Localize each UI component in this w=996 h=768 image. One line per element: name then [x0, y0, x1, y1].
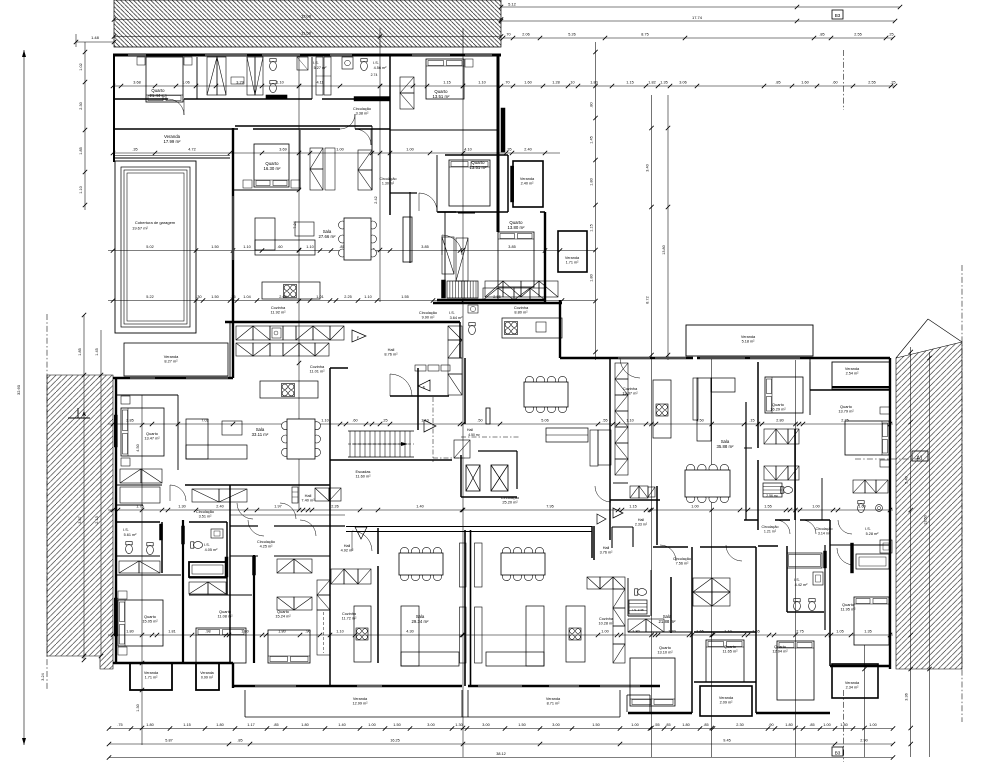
svg-text:5.06: 5.06 [541, 419, 548, 423]
corridor wall y451 [478, 450, 517, 452]
svg-text:4.10: 4.10 [464, 148, 471, 152]
svg-text:19.67 m²: 19.67 m² [132, 226, 148, 231]
svg-text:.85: .85 [665, 723, 670, 727]
sw bottom wall [113, 662, 233, 664]
svg-text:1.10: 1.10 [79, 186, 83, 193]
svg-text:8.27 m²: 8.27 m² [164, 359, 178, 364]
bottom dimension row 3 [109, 757, 893, 759]
north top wall window glazing [128, 54, 146, 56]
svg-text:13.80: 13.80 [662, 245, 666, 255]
svg-text:1.40: 1.40 [338, 723, 345, 727]
closet center pair [693, 578, 712, 592]
right wing east wall [544, 212, 546, 302]
door arc ne1 [620, 358, 640, 378]
svg-text:1.30: 1.30 [178, 505, 185, 509]
svg-text:11.60 m²: 11.60 m² [355, 474, 371, 479]
bottom dimension row 2 [109, 743, 893, 745]
sw partition x183 thick [182, 520, 184, 663]
svg-text:8.80 m²: 8.80 m² [514, 310, 528, 315]
closet sw q1108 [189, 582, 208, 594]
west window bar 2 [114, 598, 117, 636]
door jamb x851 [851, 543, 854, 573]
bed Quarto 16.30 [254, 144, 289, 187]
closet sw hall [120, 469, 141, 483]
southwest outer west wall [115, 378, 117, 663]
left dimension line x85 upper [84, 42, 86, 210]
svg-text:3.00: 3.00 [482, 723, 489, 727]
svg-text:1.80: 1.80 [590, 81, 597, 85]
sofa sala3588 [697, 378, 711, 441]
tall cabinet column mid x318 [317, 580, 330, 595]
dimension chain y301 [108, 300, 595, 302]
toilet IS3.64 [469, 325, 476, 334]
svg-text:5.12: 5.12 [508, 2, 517, 7]
svg-text:1.10: 1.10 [336, 630, 343, 634]
window bar right wing upper [501, 108, 505, 152]
svg-text:.75: .75 [117, 723, 122, 727]
svg-text:B3: B3 [835, 13, 841, 18]
section marker A1 right [855, 458, 918, 460]
svg-text:.70: .70 [504, 81, 509, 85]
elevator cab 2 [491, 465, 508, 491]
svg-text:Circulação: Circulação [353, 107, 371, 111]
closet hall740 [315, 488, 329, 501]
dimension chain y153 [113, 152, 560, 154]
svg-text:.85: .85 [775, 81, 780, 85]
svg-text:Circulação: Circulação [257, 540, 275, 544]
left dimension line x101 over hatch [100, 330, 102, 656]
nightstand quarto1379 [880, 407, 890, 414]
shower stall I.S.5.27 [297, 57, 308, 70]
closet center pair2 [628, 619, 646, 632]
svg-text:1.00: 1.00 [823, 723, 830, 727]
svg-text:Veranda: Veranda [845, 681, 860, 685]
nightstands q1505 [118, 591, 127, 599]
svg-text:2.06: 2.06 [522, 33, 529, 37]
sw corridor wall y485 [116, 484, 162, 486]
closet by elevator [454, 440, 470, 458]
big veranda outline [244, 690, 246, 717]
sala3696 west wall [464, 358, 466, 424]
svg-text:12.94 m²: 12.94 m² [772, 649, 788, 654]
svg-text:Cozinha: Cozinha [342, 612, 357, 616]
closet row above kitchen880 [485, 281, 503, 297]
marker small triangle left [597, 514, 606, 524]
svg-text:Circulação: Circulação [196, 510, 214, 514]
window west wall [232, 196, 234, 260]
svg-text:1.00: 1.00 [869, 723, 876, 727]
closet sw hall2 [192, 489, 219, 502]
svg-text:7.56 m²: 7.56 m² [676, 562, 690, 566]
svg-text:1.80: 1.80 [632, 630, 639, 634]
svg-text:5.02: 5.02 [146, 245, 153, 249]
stove cozinha1337 [656, 404, 668, 416]
svg-text:I.S.: I.S. [373, 61, 379, 65]
svg-text:1.10: 1.10 [364, 295, 371, 299]
east apt west wall x760 [757, 362, 759, 448]
svg-text:Circulação: Circulação [380, 177, 397, 181]
svg-text:2.40: 2.40 [216, 505, 223, 509]
svg-text:1.15: 1.15 [629, 505, 636, 509]
svg-text:15.24 m²: 15.24 m² [275, 614, 291, 619]
svg-text:I.S.: I.S. [794, 578, 800, 582]
svg-text:0.99 m²: 0.99 m² [201, 675, 214, 679]
door arc center2 [726, 545, 742, 561]
boundary wedge above right band [928, 319, 962, 342]
stairs center rail [348, 443, 414, 445]
B3 marker top [832, 10, 843, 19]
IS405 walls [189, 577, 227, 579]
bed Quarto 13.51 upper [426, 59, 464, 99]
tall cabinets cozinha1028 [613, 589, 625, 608]
sw wall y522 [116, 521, 160, 523]
svg-text:4.72: 4.72 [188, 148, 195, 152]
svg-text:5.18 m²: 5.18 m² [742, 340, 756, 344]
svg-text:1.10: 1.10 [276, 81, 283, 85]
wall x254 thick [253, 555, 255, 663]
shower columns I.S.4.56 [316, 57, 323, 95]
dimension chain y424 [108, 423, 893, 425]
svg-text:11.08 m²: 11.08 m² [217, 614, 233, 619]
svg-text:Hall: Hall [344, 544, 351, 548]
elevator cab 1 [466, 465, 480, 491]
mid-south bottom wall [233, 685, 462, 687]
stairwell walls [329, 368, 331, 460]
wardrobe Quarto13.51 upper [400, 77, 414, 93]
svg-text:4.30: 4.30 [406, 630, 413, 634]
svg-text:1.15: 1.15 [626, 81, 633, 85]
wall x372 [371, 126, 373, 190]
svg-text:1.71 m²: 1.71 m² [566, 261, 580, 265]
bed Quarto 21.44 [146, 57, 183, 102]
stove Cozinha11.92 [284, 285, 297, 298]
svg-text:4.25 m²: 4.25 m² [260, 545, 274, 549]
kitchen880 right wall [559, 300, 561, 358]
grid axis x299 [298, 55, 300, 510]
svg-text:.15: .15 [749, 419, 754, 423]
svg-text:.30: .30 [196, 295, 201, 299]
garage canopy outer [115, 161, 196, 333]
svg-text:.55: .55 [602, 419, 607, 423]
door jamb x824 [824, 551, 827, 568]
bed Quarto13.80 [498, 232, 534, 287]
wall y212-280 right wing [444, 212, 446, 287]
svg-text:1.80: 1.80 [301, 723, 308, 727]
east apt bottom wall [830, 665, 890, 667]
door arc center1 [660, 545, 676, 561]
svg-text:Veranda: Veranda [565, 256, 580, 260]
left dimension line x84 over hatch [83, 315, 85, 660]
IS 4.42 walls [758, 545, 778, 547]
window segs mid bottom [255, 685, 296, 687]
svg-text:3.85: 3.85 [508, 245, 515, 249]
svg-text:.85: .85 [273, 723, 278, 727]
north apartment separating wall y303 [433, 302, 562, 304]
svg-text:E: E [423, 385, 426, 390]
wall x390 mid [389, 130, 391, 215]
bidet sw is [147, 545, 154, 554]
svg-text:21.88 m²: 21.88 m² [659, 619, 677, 624]
svg-text:38.12: 38.12 [496, 752, 506, 756]
svg-text:1.60: 1.60 [801, 81, 808, 85]
closet row hall492 [331, 569, 344, 584]
veranda 2.40 box [513, 161, 543, 207]
svg-text:5.28 m²: 5.28 m² [866, 532, 880, 536]
east closet row 2 [764, 466, 776, 480]
door arc corridor c1 [248, 520, 264, 536]
window segs southeast top [618, 357, 650, 359]
grid axis x595 [595, 42, 597, 360]
bed quarto1195 [854, 597, 889, 645]
wall x810 [809, 358, 811, 390]
svg-text:1.40: 1.40 [416, 505, 423, 509]
svg-text:1.35: 1.35 [864, 630, 871, 634]
kitchen counter sala2188 east [566, 606, 585, 662]
southwest top wall y378 [113, 377, 233, 379]
wall x594 center hall [593, 526, 595, 560]
closet pair mid-north-2 [358, 150, 372, 170]
svg-text:13.79 m²: 13.79 m² [838, 409, 854, 414]
svg-text:.25: .25 [888, 33, 893, 37]
wardrobe closets north-2 [247, 57, 255, 95]
svg-text:1.55: 1.55 [401, 295, 408, 299]
svg-text:2.33 m²: 2.33 m² [635, 522, 648, 526]
door arc corridor north [419, 193, 437, 211]
svg-text:1.50: 1.50 [592, 723, 599, 727]
svg-text:1.55: 1.55 [764, 505, 771, 509]
marker F2 triangle [613, 508, 623, 518]
svg-text:1.30 m²: 1.30 m² [382, 181, 395, 185]
svg-text:1.80: 1.80 [146, 723, 153, 727]
svg-text:3.00: 3.00 [427, 723, 434, 727]
svg-text:1.80: 1.80 [241, 630, 248, 634]
svg-text:1.70: 1.70 [668, 630, 675, 634]
svg-text:9.45: 9.45 [723, 739, 730, 743]
left boundary dash-dot line [46, 314, 48, 691]
stairs arrow [352, 443, 404, 445]
svg-text:35.88 m²: 35.88 m² [717, 444, 735, 449]
svg-text:2.80: 2.80 [776, 419, 783, 423]
wall stub x488 [486, 408, 490, 424]
hall876 window row [415, 365, 426, 371]
svg-text:12.99 m²: 12.99 m² [353, 702, 369, 706]
svg-text:1.00: 1.00 [631, 723, 638, 727]
svg-text:2.75: 2.75 [796, 630, 803, 634]
svg-text:.60: .60 [277, 245, 282, 249]
toilet I.S.5.27 [270, 61, 277, 70]
svg-text:.85: .85 [809, 723, 814, 727]
closet pair right wing [442, 237, 454, 274]
marker E triangle [418, 380, 430, 391]
counter cozinha1337 right wall [693, 378, 698, 420]
section marker A left [68, 417, 90, 419]
nightstand pair Quarto 21.44 [137, 57, 145, 65]
svg-text:1.48: 1.48 [91, 35, 100, 40]
svg-text:1.17: 1.17 [247, 723, 254, 727]
svg-text:3.64 m²: 3.64 m² [450, 316, 464, 320]
svg-text:1.81: 1.81 [168, 630, 175, 634]
wall x175 sw [177, 395, 179, 470]
island cozinha1337 [653, 380, 671, 438]
svg-text:1.45: 1.45 [590, 136, 594, 143]
svg-text:1.15: 1.15 [590, 224, 594, 231]
bathtub east [787, 553, 822, 568]
wall y390 east [810, 389, 890, 391]
shower box IS442 [813, 572, 823, 585]
wall x657 south of hall [656, 486, 658, 545]
wall x822 east [821, 478, 823, 520]
north wing right wall [497, 55, 500, 232]
svg-text:1.10: 1.10 [478, 81, 485, 85]
right boundary dash-dot [961, 265, 963, 722]
svg-text:33.11 m²: 33.11 m² [252, 432, 269, 437]
bench sw hall [120, 487, 160, 503]
corridor wall y193 [390, 192, 417, 194]
svg-text:1.10: 1.10 [321, 419, 328, 423]
bed quarto1629 [765, 377, 803, 413]
svg-text:1.02: 1.02 [79, 63, 83, 70]
svg-text:Veranda: Veranda [741, 335, 756, 339]
svg-text:Veranda: Veranda [144, 671, 159, 675]
svg-text:.85: .85 [237, 739, 242, 743]
shower east 2.56 [763, 483, 782, 497]
wall x610 southeast [609, 358, 611, 540]
wall x378 mid apartment [377, 528, 379, 554]
center apt bottom walls [628, 712, 692, 714]
nightstand q1351 upper [465, 59, 473, 67]
svg-text:2.55: 2.55 [854, 33, 861, 37]
veranda 17.99 outline [114, 157, 230, 159]
coffee table sala3311 [222, 421, 242, 435]
dimension line top-right tier3 [503, 37, 893, 39]
grid axis x463 [462, 28, 464, 757]
sw wall y595 [189, 594, 252, 596]
svg-text:1.00: 1.00 [336, 148, 343, 152]
svg-text:3.85: 3.85 [421, 245, 428, 249]
svg-text:1.80: 1.80 [216, 723, 223, 727]
dimension line 5.12 top-right [501, 6, 900, 8]
closet row right wing bottom [483, 288, 498, 300]
svg-text:1.80: 1.80 [682, 723, 689, 727]
svg-text:2.09 m²: 2.09 m² [720, 701, 734, 705]
grid axis x795 [795, 360, 797, 757]
door arc hall492 [352, 531, 372, 551]
svg-text:1.80: 1.80 [126, 630, 133, 634]
svg-text:I.S.: I.S. [449, 311, 455, 315]
svg-text:13.51 m²: 13.51 m² [470, 165, 488, 170]
sofa sala2188 [526, 606, 544, 666]
dimension line 11.58 inside top band [114, 36, 501, 38]
svg-text:5.26: 5.26 [568, 33, 575, 37]
svg-text:2.60: 2.60 [279, 295, 286, 299]
grid axis x380 [379, 28, 381, 302]
svg-text:8.76 m²: 8.76 m² [384, 352, 398, 357]
center corridor south wall [653, 546, 688, 548]
stove cozinha1101 [282, 384, 295, 397]
dining table sala2934 [400, 547, 408, 555]
svg-text:2.30: 2.30 [79, 102, 83, 109]
toilet I.S.4.56 [361, 61, 368, 70]
bed quarto1505 [118, 600, 163, 646]
svg-text:Circulação: Circulação [762, 525, 779, 529]
svg-text:Hall: Hall [638, 518, 644, 522]
svg-text:.50: .50 [477, 419, 482, 423]
east apt wall x800 [809, 362, 811, 415]
bed quarto1294 [777, 641, 814, 700]
svg-text:12.08: 12.08 [301, 14, 312, 19]
veranda 2.34 box [832, 664, 878, 698]
IS561 walls [116, 555, 160, 557]
svg-text:32.60: 32.60 [16, 384, 21, 395]
sw east wall x230 [229, 322, 231, 378]
east corridor walls [744, 519, 758, 521]
door arc east corridor1 [776, 520, 790, 534]
svg-text:11.01 m²: 11.01 m² [309, 369, 325, 374]
svg-text:2.56 m²: 2.56 m² [766, 494, 778, 498]
island cozinha1101 [260, 381, 318, 398]
corridor wall x410 [409, 192, 411, 263]
svg-text:1.10: 1.10 [306, 245, 313, 249]
door jamb x226 [225, 557, 228, 577]
svg-text:1.21 m²: 1.21 m² [764, 529, 777, 533]
svg-text:1.50: 1.50 [518, 723, 525, 727]
small veranda step mid [627, 694, 650, 696]
tall cabinet column kitchen east [448, 326, 462, 340]
hatched neighbour band top (street side) [114, 0, 501, 47]
svg-text:Hall: Hall [467, 428, 473, 432]
triangle marker stair right [424, 420, 436, 432]
veranda 8.27 box [124, 343, 228, 376]
wc sw is2 [193, 542, 202, 549]
svg-text:3.69: 3.69 [279, 148, 286, 152]
svg-text:13.51 m²: 13.51 m² [433, 94, 451, 99]
counter cozinha1337 left [590, 430, 598, 466]
bathtub sw is2 [189, 562, 226, 577]
bed quarto1347 [121, 408, 164, 456]
shower box IS528 [880, 540, 892, 553]
svg-text:1.00: 1.00 [368, 723, 375, 727]
right wing south wall [437, 299, 545, 301]
svg-text:1.35: 1.35 [660, 81, 667, 85]
svg-text:1.00: 1.00 [601, 630, 608, 634]
dining table sala3588 [686, 464, 694, 472]
dresser quarto1195 [856, 554, 889, 569]
svg-text:Veranda: Veranda [845, 367, 860, 371]
svg-text:3.38 m²: 3.38 m² [356, 112, 370, 116]
shower center 2.38 [629, 600, 647, 614]
svg-text:4.05 m²: 4.05 m² [205, 548, 219, 552]
svg-text:B3: B3 [835, 751, 841, 756]
east apt wall y545 [830, 544, 890, 546]
dining table Sala36.96 [525, 376, 533, 384]
door arc hall876 [390, 374, 412, 396]
svg-text:2.74: 2.74 [371, 73, 378, 77]
bed quarto1165 [706, 640, 744, 682]
svg-text:1.06: 1.06 [182, 81, 189, 85]
bench mid-north [325, 148, 335, 190]
closet q1524 row [277, 559, 294, 573]
basin east3 [876, 505, 883, 512]
dashdot lobby y437 [461, 436, 520, 438]
kitchen 8.80 top wall [459, 322, 461, 358]
svg-text:1.60: 1.60 [524, 81, 531, 85]
svg-text:.60: .60 [352, 419, 357, 423]
door arc corridor south [442, 235, 462, 255]
bed quarto1524 [268, 630, 310, 663]
right dimension line x911 [910, 347, 912, 757]
threshold band IS456 [354, 97, 390, 102]
svg-text:1.15: 1.15 [443, 81, 450, 85]
